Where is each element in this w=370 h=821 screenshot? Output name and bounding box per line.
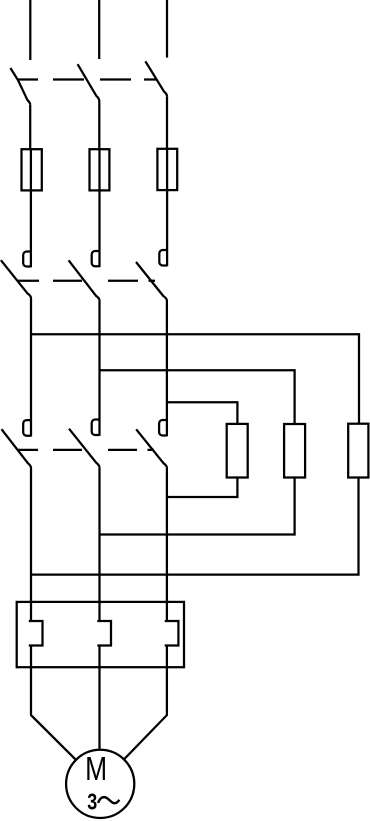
svg-text:M: M [85, 750, 107, 787]
svg-text:3: 3 [87, 789, 97, 815]
